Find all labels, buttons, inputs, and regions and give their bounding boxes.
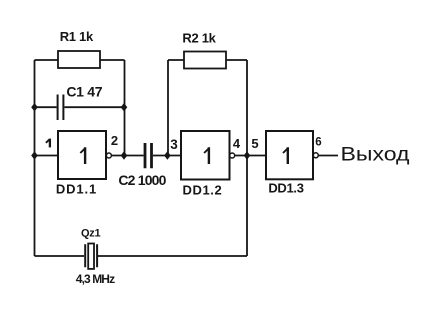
- svg-text:6: 6: [315, 137, 321, 149]
- svg-text:C1 47: C1 47: [66, 84, 102, 100]
- svg-text:DD1.2: DD1.2: [182, 183, 222, 198]
- svg-text:R1 1k: R1 1k: [60, 29, 94, 44]
- svg-text:5: 5: [251, 136, 258, 151]
- svg-text:2: 2: [111, 133, 118, 148]
- svg-text:DD1.3: DD1.3: [268, 181, 303, 196]
- svg-text:Qz1: Qz1: [81, 228, 100, 240]
- svg-text:DD1.1: DD1.1: [56, 182, 97, 197]
- svg-text:4,3 MHz: 4,3 MHz: [76, 272, 115, 286]
- svg-text:3: 3: [170, 137, 178, 152]
- svg-text:R2 1k: R2 1k: [182, 31, 216, 46]
- svg-text:C2 1000: C2 1000: [118, 172, 166, 188]
- svg-text:4: 4: [233, 136, 241, 151]
- svg-text:Выход: Выход: [341, 143, 411, 165]
